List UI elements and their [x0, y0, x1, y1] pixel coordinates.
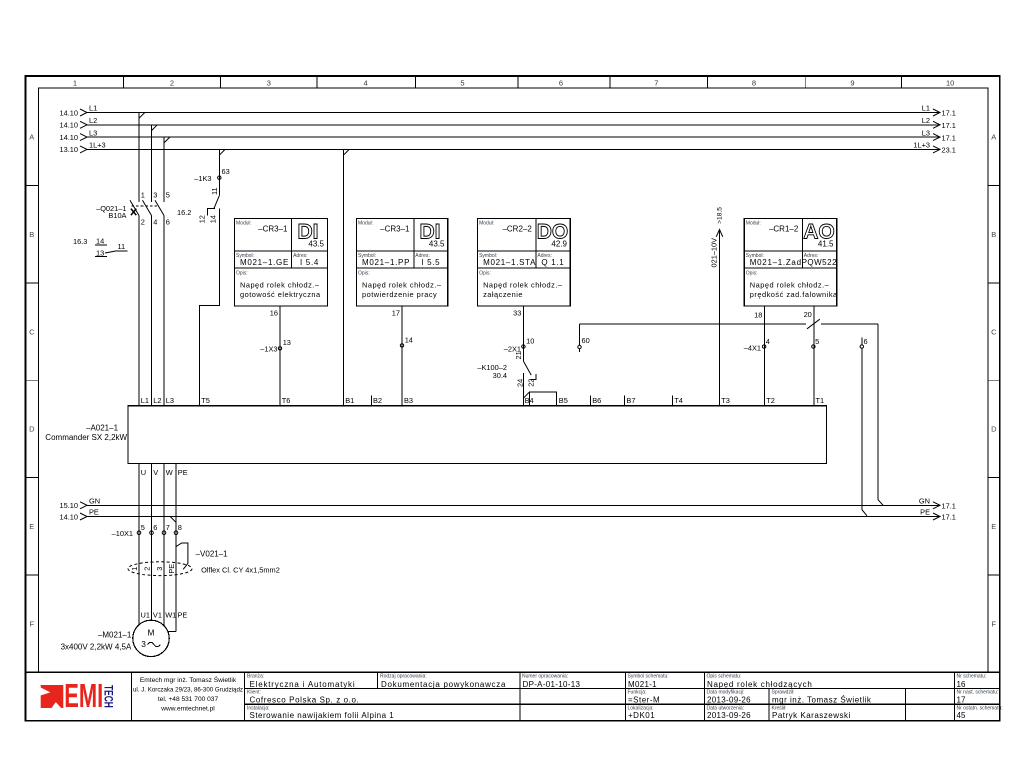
svg-text:3: 3 [267, 78, 271, 87]
svg-text:17.1: 17.1 [942, 109, 956, 118]
svg-text:=Ster-M: =Ster-M [628, 696, 660, 705]
frame inner border [39, 88, 988, 672]
svg-text:potwierdzenie pracy: potwierdzenie pracy [362, 290, 437, 299]
svg-text:DP-A-01-10-13: DP-A-01-10-13 [523, 680, 581, 689]
module CR2-2 DO block 3 [478, 219, 571, 306]
svg-text:17.1: 17.1 [942, 121, 956, 130]
svg-text:Rodzaj opracowania:: Rodzaj opracowania: [380, 674, 427, 680]
svg-text:Olflex Cl. CY 4x1,5mm2: Olflex Cl. CY 4x1,5mm2 [201, 565, 280, 574]
svg-text:60: 60 [582, 336, 590, 345]
svg-text:30.4: 30.4 [493, 371, 507, 380]
connector 1X3 pin 13 [260, 338, 291, 353]
svg-text:7: 7 [166, 523, 170, 532]
svg-text:16: 16 [957, 680, 966, 689]
svg-text:10: 10 [526, 337, 534, 346]
svg-text:D: D [991, 425, 997, 434]
company contact info [133, 675, 243, 713]
svg-text:M021–1.PP: M021–1.PP [362, 258, 410, 267]
svg-text:T2: T2 [766, 396, 775, 405]
svg-text:17: 17 [957, 696, 966, 705]
svg-text:L1: L1 [89, 104, 97, 113]
svg-text:16: 16 [270, 309, 278, 318]
svg-text:4: 4 [766, 337, 770, 346]
svg-text:7: 7 [654, 78, 658, 87]
wire L2 horizontal [87, 124, 940, 126]
svg-text:8: 8 [178, 523, 182, 532]
connector pin 14 [400, 335, 413, 347]
svg-text:www.emtechnet.pl: www.emtechnet.pl [160, 706, 215, 713]
wire module2 pin 17 to B3 [401, 306, 403, 406]
svg-text:A: A [29, 133, 34, 142]
drive terminal labels top [141, 396, 824, 405]
svg-text:Q 1.1: Q 1.1 [541, 258, 564, 267]
svg-text:PE: PE [920, 508, 930, 517]
svg-text:–CR2–2: –CR2–2 [502, 225, 532, 234]
svg-text:18: 18 [754, 311, 762, 320]
source arrow L3 left [80, 134, 87, 141]
svg-text:5: 5 [460, 78, 464, 87]
svg-text:Cofresco Polska Sp. z o.o.: Cofresco Polska Sp. z o.o. [250, 696, 360, 705]
target arrow L1 right [933, 109, 940, 116]
svg-text:B: B [29, 230, 34, 239]
svg-text:L3: L3 [166, 396, 174, 405]
motor M021-1 circle [133, 620, 169, 656]
svg-text:3x400V 2,2kW 4,5A: 3x400V 2,2kW 4,5A [61, 643, 132, 652]
svg-text:16.2: 16.2 [177, 208, 191, 217]
svg-text:17.1: 17.1 [942, 133, 956, 142]
svg-text:63: 63 [222, 167, 230, 176]
svg-text:Napęd rolek chłodz.–: Napęd rolek chłodz.– [483, 281, 563, 290]
connector 4X1 pin 5 [812, 337, 820, 348]
svg-text:21: 21 [514, 351, 523, 359]
source arrow L2 left [80, 121, 87, 128]
motor terminal labels U1 V1 W1 PE [141, 611, 188, 620]
svg-text:Numer opracowania:: Numer opracowania: [522, 674, 568, 680]
wire to T3 with up arrow 18.5 [710, 207, 724, 406]
svg-text:–M021–1: –M021–1 [98, 631, 132, 640]
svg-text:B5: B5 [559, 396, 568, 405]
ruler row letters left A-F [29, 133, 35, 629]
source arrow PE left [80, 513, 87, 520]
wire module4 pin 20 to T1 [813, 306, 815, 406]
svg-text:M021-1: M021-1 [628, 680, 657, 689]
wire branch 1L+3 to B1 [343, 149, 349, 405]
svg-text:B10A: B10A [108, 211, 126, 220]
svg-text:L1: L1 [922, 104, 930, 113]
wire PE horizontal [87, 516, 940, 518]
wire L1 horizontal [87, 112, 940, 114]
svg-text:–CR3–1: –CR3–1 [258, 225, 288, 234]
svg-text:14: 14 [96, 236, 104, 245]
svg-text:42.9: 42.9 [551, 240, 567, 249]
target arrow PE right [933, 513, 940, 520]
breaker aux contact cross-reference 16.3 13/14 11 [73, 236, 128, 257]
svg-text:4: 4 [364, 78, 368, 87]
svg-text:I 5.4: I 5.4 [300, 258, 319, 267]
svg-text:45: 45 [957, 711, 966, 720]
analog net horizontal wire [580, 319, 878, 329]
svg-text:2013-09-26: 2013-09-26 [707, 696, 751, 705]
svg-text:V1: V1 [153, 611, 162, 620]
svg-text:8: 8 [752, 78, 756, 87]
svg-text:Symbol schematu:: Symbol schematu: [628, 674, 669, 680]
ruler column ticks top band [124, 76, 902, 88]
svg-text:–10X1: –10X1 [112, 529, 133, 538]
wire branch 1L+3 to 1K3 [219, 149, 225, 195]
svg-text:2013-09-26: 2013-09-26 [707, 711, 751, 720]
wire L3 horizontal [87, 136, 940, 138]
svg-text:Branża:: Branża: [247, 674, 264, 680]
svg-text:1: 1 [130, 567, 139, 571]
svg-text:F: F [992, 619, 997, 628]
connector 2X1 pin 60 [578, 324, 590, 352]
svg-text:5: 5 [141, 523, 145, 532]
svg-text:17.1: 17.1 [942, 513, 956, 522]
motor wire PE [168, 463, 176, 631]
target arrow 1L+3 right [933, 146, 940, 153]
svg-text:B: B [991, 230, 996, 239]
svg-text:Moduł:: Moduł: [746, 221, 761, 227]
svg-text:Opis:: Opis: [358, 270, 370, 276]
cable shield symbol [176, 543, 188, 569]
target arrow L3 right [933, 134, 940, 141]
svg-text:T4: T4 [674, 396, 683, 405]
svg-text:gotowość elektryczna: gotowość elektryczna [240, 290, 321, 299]
svg-text:GN: GN [919, 497, 930, 506]
svg-text:33: 33 [513, 309, 521, 318]
svg-text:14.10: 14.10 [60, 133, 79, 142]
drive terminal labels bottom U V W PE [141, 468, 188, 477]
svg-text:Patryk Karaszewski: Patryk Karaszewski [772, 711, 851, 720]
svg-text:1: 1 [141, 190, 145, 199]
svg-text:14: 14 [209, 215, 218, 223]
svg-text:PE: PE [167, 564, 176, 574]
svg-text:L2: L2 [922, 116, 930, 125]
svg-text:1: 1 [73, 78, 77, 87]
motor wire V [151, 463, 153, 620]
target arrow GN right [933, 502, 940, 509]
svg-text:–A021–1: –A021–1 [86, 424, 119, 433]
svg-text:Elektryczna i Automatyki: Elektryczna i Automatyki [250, 680, 356, 689]
svg-text:5: 5 [815, 337, 819, 346]
svg-text:B1: B1 [345, 396, 354, 405]
connector 2X1 pin 10 [504, 337, 535, 354]
svg-text:Sterowanie nawijakiem folii Al: Sterowanie nawijakiem folii Alpina 1 [250, 711, 395, 720]
svg-text:43.5: 43.5 [308, 240, 324, 249]
wire 1K3 to T5 [199, 208, 219, 405]
svg-text:PE: PE [178, 468, 188, 477]
svg-text:ul. J. Korczaka 29/23, 86-300: ul. J. Korczaka 29/23, 86-300 Grudziądz [133, 687, 243, 694]
wire GN horizontal [87, 504, 940, 506]
svg-text:M021–1.Zad: M021–1.Zad [750, 258, 802, 267]
svg-text:43.5: 43.5 [429, 240, 445, 249]
cable V021-1 marker ellipse [128, 562, 192, 576]
svg-text:TECH: TECH [102, 685, 114, 708]
source arrow GN left [80, 502, 87, 509]
svg-text:E: E [29, 522, 34, 531]
wire module1 pin 16 to T6 [279, 306, 281, 406]
svg-text:Opis:: Opis: [479, 270, 491, 276]
svg-text:Napęd rolek chłodz.–: Napęd rolek chłodz.– [750, 281, 830, 290]
svg-text:2: 2 [141, 218, 145, 227]
svg-text:2: 2 [170, 78, 174, 87]
svg-text:B6: B6 [592, 396, 601, 405]
svg-text:14.10: 14.10 [60, 108, 79, 117]
svg-text:3: 3 [141, 639, 146, 649]
svg-text:tel. +48 531 700 037: tel. +48 531 700 037 [158, 696, 219, 703]
connector 4X1 pin 6 [860, 337, 868, 516]
wire branch L2 down [152, 125, 158, 202]
target arrow L2 right [933, 121, 940, 128]
svg-text:D: D [29, 425, 35, 434]
svg-text:23.1: 23.1 [942, 146, 956, 155]
svg-text:L1: L1 [141, 396, 149, 405]
svg-text:17.1: 17.1 [942, 502, 956, 511]
svg-text:T5: T5 [201, 396, 210, 405]
svg-text:17: 17 [392, 309, 400, 318]
svg-text:12: 12 [197, 215, 206, 223]
svg-text:5: 5 [166, 190, 170, 199]
svg-text:B2: B2 [373, 396, 382, 405]
svg-text:Napęd rolek chłodzących: Napęd rolek chłodzących [707, 680, 812, 689]
jumper link B4-B5 [523, 392, 556, 406]
svg-text:prędkość zad.falownika: prędkość zad.falownika [750, 290, 838, 299]
cable conductor labels 1 2 3 PE [130, 564, 176, 574]
connector 4X1 pin 4 [744, 337, 770, 352]
logo EMITECH [40, 677, 113, 714]
svg-text:Opis:: Opis: [746, 270, 758, 276]
svg-text:1L+3: 1L+3 [89, 141, 106, 150]
svg-text:021–10V: 021–10V [710, 238, 719, 268]
svg-text:6: 6 [153, 523, 157, 532]
svg-text:C: C [29, 327, 35, 336]
svg-text:M021–1.GE: M021–1.GE [240, 258, 289, 267]
svg-text:B4: B4 [525, 396, 534, 405]
svg-text:PE: PE [89, 508, 99, 517]
ruler row ticks right band [988, 186, 1000, 575]
module CR3-1 DI block 1 [235, 219, 328, 306]
svg-text:13.10: 13.10 [60, 145, 79, 154]
wire branch L1 down [139, 113, 145, 202]
circuit breaker Q021-1 [130, 200, 164, 406]
svg-text:6: 6 [559, 78, 563, 87]
svg-text:L2: L2 [89, 116, 97, 125]
ruler column numbers 1-10 [73, 78, 954, 87]
svg-text:9: 9 [850, 78, 854, 87]
limit switch 1K3 [177, 167, 230, 223]
svg-text:3: 3 [153, 190, 157, 199]
svg-text:3: 3 [155, 567, 164, 571]
drive A021-1 Commander SX box [128, 406, 826, 464]
wire module4 pin 18 to T2 [763, 306, 765, 406]
source arrow L1 left [80, 109, 87, 116]
svg-text:2: 2 [142, 567, 151, 571]
wire module3 pin 33 to contact [522, 306, 524, 361]
svg-text:1L+3: 1L+3 [913, 141, 930, 150]
svg-text:10: 10 [946, 78, 954, 87]
svg-text:T1: T1 [816, 396, 825, 405]
svg-text:Opis:: Opis: [236, 270, 248, 276]
svg-text:Moduł:: Moduł: [358, 221, 373, 227]
svg-text:11: 11 [118, 242, 126, 251]
svg-text:20: 20 [804, 310, 812, 319]
wire 1L+3 horizontal [87, 148, 940, 150]
svg-text:załączenie: załączenie [483, 290, 523, 299]
svg-text:14.10: 14.10 [60, 512, 79, 521]
svg-text:W1: W1 [165, 611, 176, 620]
svg-text:L2: L2 [153, 396, 161, 405]
svg-text:M021–1.STA: M021–1.STA [483, 258, 536, 267]
svg-text:I 5.5: I 5.5 [421, 258, 440, 267]
svg-text:F: F [30, 619, 35, 628]
svg-text:Opis schematu:: Opis schematu: [707, 674, 742, 680]
title block grid [25, 672, 999, 704]
svg-text:U: U [141, 468, 146, 477]
svg-text:6: 6 [166, 218, 170, 227]
module CR3-1 DI block 2 [357, 219, 448, 306]
frame outer border [25, 76, 999, 721]
svg-text:Commander SX 2,2kW: Commander SX 2,2kW [45, 433, 127, 442]
svg-text:15.10: 15.10 [60, 501, 79, 510]
svg-text:41.5: 41.5 [818, 240, 834, 249]
svg-text:4: 4 [153, 218, 157, 227]
svg-text:E: E [991, 522, 996, 531]
svg-text:16.3: 16.3 [73, 237, 87, 246]
motor wire W [163, 463, 165, 625]
svg-text:T3: T3 [721, 396, 730, 405]
svg-text:L3: L3 [922, 128, 930, 137]
svg-text:U1: U1 [141, 611, 150, 620]
svg-text:11: 11 [210, 187, 219, 195]
motor wire U [138, 463, 140, 625]
svg-text:A: A [991, 133, 996, 142]
svg-text:GN: GN [89, 497, 100, 506]
svg-text:PQW522: PQW522 [802, 258, 838, 267]
svg-text:Emtech mgr inż. Tomasz Świetli: Emtech mgr inż. Tomasz Świetlik [140, 675, 237, 684]
svg-text:>18.5: >18.5 [717, 207, 724, 224]
wire branch L3 down [164, 137, 170, 202]
svg-text:Moduł:: Moduł: [236, 221, 251, 227]
svg-text:B3: B3 [404, 396, 413, 405]
svg-text:+DK01: +DK01 [628, 711, 655, 720]
svg-text:Napęd rolek chłodz.–: Napęd rolek chłodz.– [362, 281, 442, 290]
source arrow 1L+3 left [80, 146, 87, 153]
svg-text:–4X1: –4X1 [744, 343, 761, 352]
svg-text:–V021–1: –V021–1 [196, 550, 229, 559]
svg-text:Napęd rolek chłodz.–: Napęd rolek chłodz.– [240, 281, 320, 290]
svg-text:13: 13 [283, 338, 291, 347]
svg-text:C: C [991, 327, 997, 336]
svg-text:mgr inż. Tomasz Świetlik: mgr inż. Tomasz Świetlik [772, 696, 872, 705]
svg-text:–CR1–2: –CR1–2 [769, 225, 799, 234]
svg-text:6: 6 [864, 337, 868, 346]
svg-text:L3: L3 [89, 128, 97, 137]
terminal strip 10X1 [112, 523, 182, 538]
svg-text:Dokumentacja powykonawcza: Dokumentacja powykonawcza [381, 680, 506, 689]
svg-text:–1X3: –1X3 [260, 344, 277, 353]
svg-text:14: 14 [405, 335, 413, 344]
svg-text:–1K3: –1K3 [194, 174, 211, 183]
wire contact to B4 [522, 373, 524, 406]
svg-text:Moduł:: Moduł: [479, 221, 494, 227]
svg-text:EMI: EMI [64, 677, 103, 714]
drive spare terminal ticks [371, 396, 672, 406]
wire GN riser [878, 324, 883, 505]
svg-text:W: W [166, 468, 173, 477]
svg-text:PE: PE [178, 611, 188, 620]
svg-text:T6: T6 [282, 396, 291, 405]
relay contact K100-2 [477, 351, 535, 387]
module CR1-2 AO block 4 [744, 219, 838, 306]
svg-text:M: M [148, 628, 155, 638]
ruler row ticks left band [25, 186, 38, 575]
svg-text:–CR3–1: –CR3–1 [380, 225, 410, 234]
svg-text:B7: B7 [626, 396, 635, 405]
svg-text:V: V [153, 468, 158, 477]
svg-text:14.10: 14.10 [60, 121, 79, 130]
svg-text:Nr schematu:: Nr schematu: [957, 674, 987, 680]
svg-text:22: 22 [527, 379, 536, 387]
ruler row letters right A-F [991, 133, 997, 629]
